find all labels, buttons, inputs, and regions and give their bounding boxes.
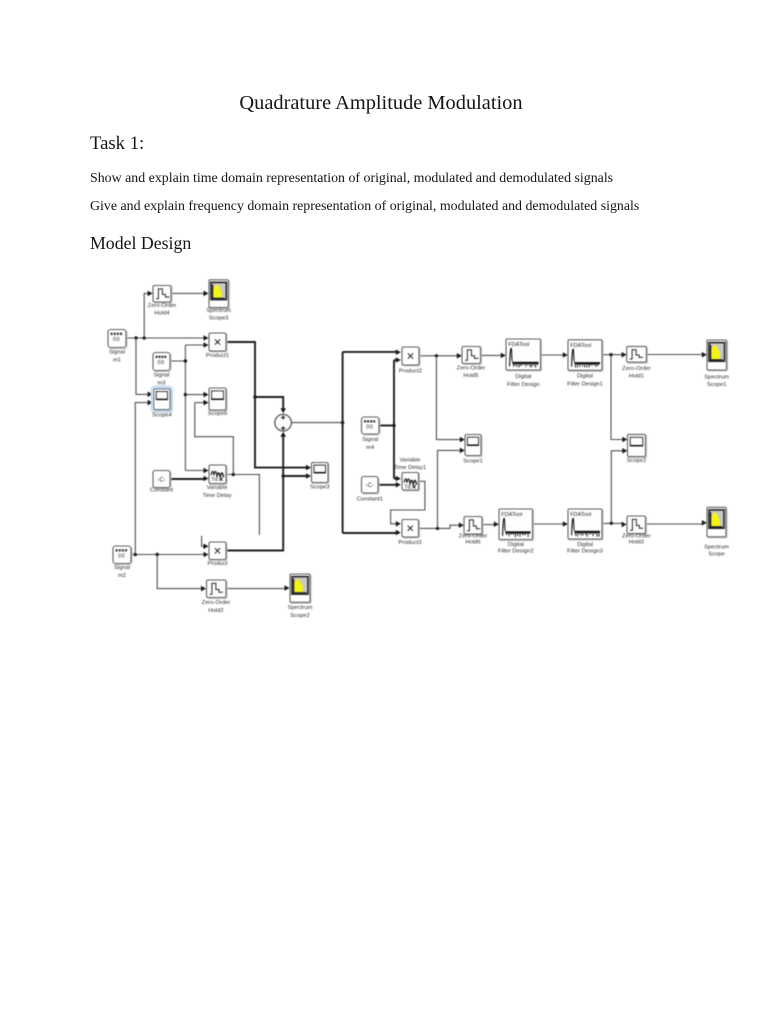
svg-text:-C-: -C-	[366, 483, 374, 489]
svg-text:Zero-Order: Zero-Order	[622, 533, 651, 539]
wire: riser to Variable Time Delay1 in1	[394, 478, 398, 480]
wire: Signal m1 output to Product1 in1	[126, 337, 206, 339]
svg-text:Scope2: Scope2	[627, 458, 647, 464]
node: junction splitter	[341, 421, 344, 424]
wire: Signal m3 down to Variable Time Delay in1	[185, 470, 205, 472]
svg-text:00: 00	[113, 337, 120, 343]
wire: Signal m4 output	[379, 425, 394, 427]
block Product	[210, 543, 227, 561]
wire: Digital Filter Design2 to Digital Filter Design3	[533, 523, 565, 525]
svg-text:Signal: Signal	[362, 437, 378, 443]
svg-text:Zero-Order: Zero-Order	[459, 533, 488, 539]
block Scope2	[629, 436, 647, 458]
node: junction bottom filter output	[610, 522, 613, 525]
node: junction Product1 to sum	[253, 395, 256, 398]
wire: Product2 output to Zero-Order Hold5	[419, 355, 459, 357]
wire: riser to Scope2 in2	[611, 451, 624, 523]
svg-text:Filter Design3: Filter Design3	[567, 549, 603, 555]
block Product3	[403, 521, 420, 539]
svg-text:Digital: Digital	[577, 374, 593, 380]
svg-text:00: 00	[366, 425, 373, 431]
block Product2	[403, 348, 420, 366]
wire: riser to Zero-Order Hold4 input	[144, 293, 149, 338]
heading Task 1	[90, 133, 144, 155]
node: junction Scope6 in1 branch	[184, 393, 187, 396]
wire: Zero-Order Hold5 to Digital Filter Design	[481, 354, 503, 356]
block Digital Filter Design (FDATool)	[507, 340, 541, 371]
svg-text:m3: m3	[157, 380, 165, 386]
node: junction riser to Scope3 in2	[282, 474, 285, 477]
block Scope6	[210, 389, 227, 411]
svg-text:Td: Td	[211, 477, 217, 483]
node: junction drop to Zero-Order Hold2	[156, 553, 159, 556]
block Variable Time Delay1	[403, 474, 420, 492]
title	[0, 92, 762, 115]
svg-text:Hold1: Hold1	[629, 373, 644, 379]
paragraph 2	[90, 199, 639, 215]
block Scope3	[313, 464, 330, 484]
block Zero-Order Hold2	[208, 581, 228, 599]
heading Model Design	[90, 233, 191, 254]
block Constant1	[363, 478, 380, 495]
wire: Zero-Order Hold2 to Spectrum Scope2	[226, 588, 287, 590]
wire: drop to Scope1 in1	[436, 356, 461, 440]
wire: Digital Filter Design3 to Zero-Order Hold3	[602, 522, 624, 524]
block Signal m1 (signal from workspace)	[109, 331, 127, 349]
block Digital Filter Design2 (FDATool)	[500, 510, 533, 540]
svg-text:Spectrum: Spectrum	[704, 544, 729, 550]
block Zero-Order Hold3	[628, 517, 647, 535]
svg-text:00: 00	[158, 360, 165, 366]
node: junction riser to Zero-Order Hold4	[143, 336, 146, 339]
node: junction Variable Time Delay output	[232, 473, 235, 476]
wire: dangling into Product in1	[202, 536, 206, 547]
svg-text:Constant: Constant	[150, 487, 174, 493]
block Signal m3 (signal from workspace)	[154, 354, 171, 372]
wire: splitter vertical (bold)	[342, 352, 344, 533]
svg-text:m2: m2	[118, 573, 126, 579]
svg-text:Signal: Signal	[109, 350, 125, 356]
block Zero-Order Hold5	[463, 348, 482, 365]
wire: Product3 output to Zero-Order Hold6	[418, 525, 460, 528]
svg-text:Variable: Variable	[400, 457, 421, 463]
wire: branch to Scope3 in2	[283, 475, 307, 477]
block Constant	[154, 472, 171, 489]
wire: Variable Time Delay1 output to Product3 in1	[391, 481, 425, 524]
wire: splitter to Product3 in2	[343, 532, 398, 534]
wire: branch up to Scope6 in2	[195, 403, 234, 475]
svg-text:Zero-Order: Zero-Order	[457, 365, 486, 371]
svg-text:Scope1: Scope1	[707, 382, 727, 388]
svg-text:Product: Product	[208, 561, 228, 567]
node: junction Signal m1 branch down	[134, 336, 137, 339]
svg-text:Scope1: Scope1	[463, 458, 483, 464]
svg-text:Product2: Product2	[399, 369, 422, 375]
wire: Zero-Order Hold1 to Spectrum Scope1	[646, 354, 703, 356]
block Scope1	[466, 436, 482, 457]
svg-text:Filter Design: Filter Design	[507, 382, 540, 388]
block Digital Filter Design1 (FDATool)	[569, 341, 603, 372]
svg-text:Spectrum: Spectrum	[206, 308, 231, 314]
svg-text:Scope4: Scope4	[152, 413, 172, 419]
wire: Product1 output trunk (bold)	[226, 342, 308, 468]
svg-text:-C-: -C-	[157, 477, 165, 483]
wire: Digital Filter Design to Digital Filter Design1	[541, 354, 565, 356]
block Spectrum Scope3	[210, 281, 229, 309]
svg-text:Product3: Product3	[398, 540, 421, 546]
sum block	[275, 414, 292, 431]
wire: Zero-Order Hold3 to Spectrum Scope	[646, 523, 704, 525]
wire: Variable Time Delay output dangling	[226, 475, 259, 536]
block Signal m2 (signal from workspace)	[114, 547, 132, 565]
node: junction top filter output	[609, 353, 612, 356]
svg-text:Scope2: Scope2	[290, 613, 310, 619]
block Zero-Order Hold4	[154, 287, 172, 304]
wire: Constant1 to Variable Time Delay1 in2	[378, 484, 398, 486]
block Signal m4 (signal from workspace)	[363, 418, 381, 435]
svg-text:Time Delay1: Time Delay1	[394, 465, 426, 471]
svg-text:Zero-Order: Zero-Order	[622, 366, 651, 372]
wire: Signal m2 output to Product in2	[131, 554, 206, 556]
wire: Digital Filter Design1 to Zero-Order Hold1	[602, 354, 624, 356]
wire: Signal m3 output trunk	[170, 345, 185, 471]
block Spectrum Scope1	[708, 341, 728, 371]
svg-text:Digital: Digital	[577, 542, 593, 548]
svg-text:Constant1: Constant1	[357, 496, 383, 502]
node: junction riser to Scope4 in2	[134, 553, 137, 556]
svg-text:Scope3: Scope3	[310, 484, 330, 490]
svg-text:Filter Design2: Filter Design2	[498, 549, 534, 555]
paragraph 1	[90, 171, 613, 187]
block Zero-Order Hold1	[628, 348, 648, 364]
wire: branch to sum top input	[255, 397, 283, 409]
svg-text:Hold3: Hold3	[629, 540, 644, 546]
wire: branch down to Scope4 in1	[136, 338, 150, 394]
wire: drop to Scope2 in1	[611, 355, 624, 440]
svg-text:FDATool: FDATool	[508, 342, 529, 348]
svg-text:FDATool: FDATool	[570, 343, 591, 349]
svg-text:Filter Design1: Filter Design1	[567, 381, 603, 387]
wire: into Scope6 in2	[195, 402, 206, 404]
node: junction Signal m3 trunk	[184, 359, 187, 362]
svg-text:Td: Td	[404, 485, 410, 491]
wire: Constant to Variable Time Delay in2	[170, 478, 206, 480]
svg-text:Signal: Signal	[153, 372, 169, 378]
svg-text:Variable: Variable	[207, 485, 228, 491]
svg-text:00: 00	[118, 554, 125, 560]
svg-text:m4: m4	[366, 445, 375, 451]
wire: Product output riser (bold)	[226, 435, 283, 551]
svg-text:Digital: Digital	[515, 374, 531, 380]
block Digital Filter Design3 (FDATool)	[569, 510, 603, 540]
wire: riser to Scope1 in2	[438, 450, 462, 528]
svg-text:Hold5: Hold5	[463, 373, 478, 379]
svg-text:Scope: Scope	[708, 551, 724, 557]
node: junction Product3 output	[436, 527, 439, 530]
svg-text:Spectrum: Spectrum	[704, 374, 729, 380]
node: junction Product2 output	[435, 354, 438, 357]
block Zero-Order Hold6	[465, 518, 483, 536]
node: junction Signal m4 riser	[392, 424, 395, 427]
wire: sum output to splitter	[292, 422, 343, 424]
wire: drop to Zero-Order Hold2 input	[157, 555, 203, 589]
wire: splitter to Product2 in1	[343, 351, 398, 353]
svg-text:Signal: Signal	[114, 565, 130, 571]
svg-text:Zero-Order: Zero-Order	[148, 303, 177, 309]
svg-text:Product1: Product1	[206, 353, 229, 359]
svg-text:m1: m1	[113, 358, 121, 364]
block Spectrum Scope	[708, 508, 727, 538]
svg-text:Hold4: Hold4	[154, 311, 170, 317]
svg-text:Scope6: Scope6	[208, 411, 228, 417]
wire: Zero-Order Hold4 to Spectrum Scope3	[171, 292, 206, 294]
block Spectrum Scope2	[291, 575, 311, 603]
svg-text:Scope3: Scope3	[209, 316, 229, 322]
wire: Signal m3 up to Product1 in2	[185, 344, 205, 346]
svg-text:Zero-Order: Zero-Order	[202, 600, 231, 606]
wire: Signal m4 riser (bold)	[393, 360, 395, 479]
wire: branch to Scope6 in1	[185, 394, 205, 396]
block Product1	[210, 334, 227, 352]
svg-text:FDATool: FDATool	[501, 512, 522, 518]
svg-text:FDATool: FDATool	[570, 512, 591, 518]
svg-text:Digital: Digital	[508, 542, 524, 548]
svg-text:Spectrum: Spectrum	[288, 605, 313, 611]
svg-text:Hold6: Hold6	[465, 540, 480, 546]
wire: Zero-Order Hold6 to Digital Filter Design2	[482, 524, 496, 526]
block Scope4 (selected)	[151, 386, 172, 412]
block Variable Time Delay	[210, 466, 227, 485]
svg-text:Time Delay: Time Delay	[202, 493, 231, 499]
wire: riser to Product2 in2	[394, 359, 398, 361]
wire: riser to Scope4 in2	[135, 403, 149, 555]
svg-text:Hold2: Hold2	[208, 608, 223, 614]
